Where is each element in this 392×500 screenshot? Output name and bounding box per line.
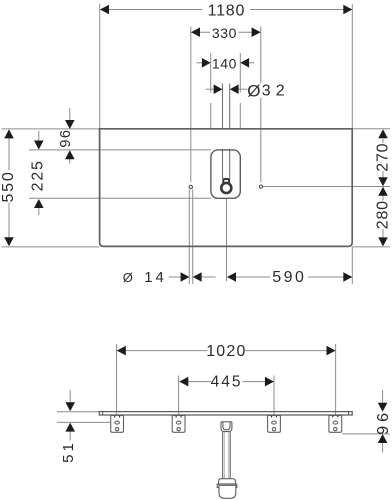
svg-text:550: 550 bbox=[0, 170, 17, 202]
svg-text:445: 445 bbox=[211, 374, 243, 391]
svg-text:96: 96 bbox=[375, 409, 392, 435]
svg-text:Ø: Ø bbox=[247, 81, 260, 100]
svg-text:225: 225 bbox=[30, 159, 47, 191]
svg-text:51: 51 bbox=[60, 440, 77, 463]
svg-text:96: 96 bbox=[58, 129, 74, 148]
svg-text:1020: 1020 bbox=[206, 343, 246, 360]
svg-text:1180: 1180 bbox=[208, 2, 246, 19]
svg-text:280: 280 bbox=[375, 200, 392, 229]
svg-text:32: 32 bbox=[262, 83, 290, 100]
svg-text:14: 14 bbox=[144, 269, 167, 286]
svg-text:Ø: Ø bbox=[123, 270, 133, 285]
svg-text:330: 330 bbox=[212, 25, 237, 41]
svg-text:270: 270 bbox=[375, 143, 392, 172]
svg-text:590: 590 bbox=[272, 269, 306, 286]
svg-text:140: 140 bbox=[212, 55, 237, 71]
